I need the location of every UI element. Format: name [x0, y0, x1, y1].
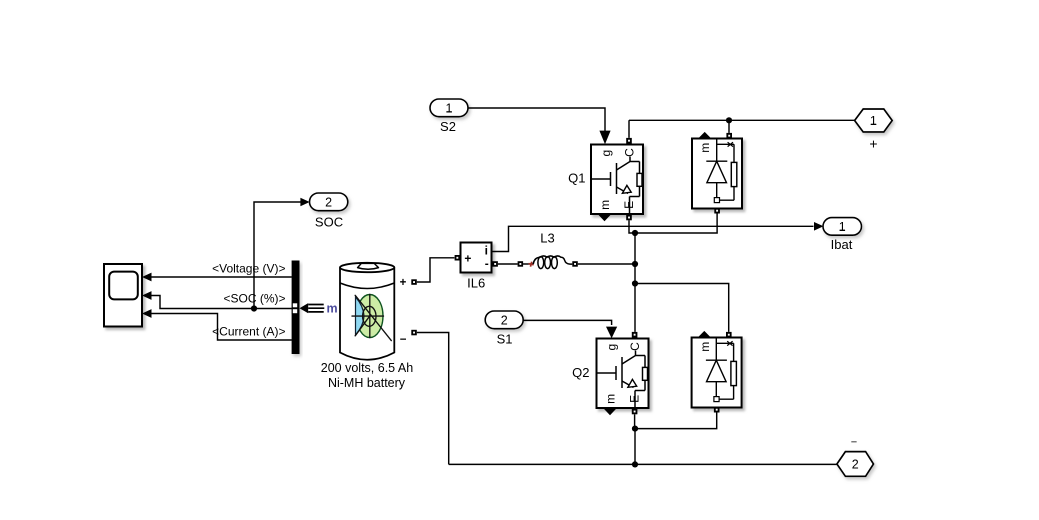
scope input arrow 1 — [142, 273, 152, 282]
svg-text:+: + — [400, 277, 407, 289]
Q2 m port triangle — [604, 408, 617, 415]
wire S1 to Q2 gate — [523, 320, 611, 325]
svg-text:2: 2 — [852, 457, 859, 471]
wire current to scope — [151, 314, 293, 341]
svg-text:-: - — [485, 257, 489, 271]
diode D2 — [692, 338, 742, 408]
svg-text:m: m — [598, 200, 612, 210]
D1 bottom port — [714, 208, 720, 214]
Q1 gate arrow — [599, 131, 610, 145]
svg-text:Q1: Q1 — [568, 171, 585, 186]
Q1 C port — [626, 138, 632, 144]
wire Q1 E down — [629, 220, 635, 233]
wire Q1 C to top bus — [629, 120, 855, 138]
svg-text:1: 1 — [446, 101, 453, 115]
wire IL6 i to Ibat — [492, 226, 814, 251]
outport oval 1 Ibat — [814, 218, 862, 236]
svg-text:S2: S2 — [440, 119, 456, 134]
bus signal m arrow — [300, 303, 309, 313]
battery body — [340, 263, 394, 360]
wire battery minus to bottom bus — [417, 333, 449, 465]
junction dot SOC branch — [251, 305, 257, 311]
wire soc to scope — [151, 296, 293, 309]
D1 top port — [726, 133, 732, 139]
junction dot node mid1 — [632, 230, 638, 236]
outport oval 2 SOC — [300, 193, 347, 211]
battery plus port — [411, 279, 417, 285]
inport oval 2 S1 — [485, 311, 523, 329]
svg-text:C: C — [622, 148, 636, 157]
Q2 gate arrow — [606, 327, 617, 339]
svg-text:Ni-MH battery: Ni-MH battery — [328, 376, 406, 390]
junction dot bottom bus — [632, 461, 638, 467]
svg-text:2: 2 — [501, 313, 508, 327]
bottom bus wire — [449, 463, 837, 465]
outport hexagon 2 minus — [837, 452, 874, 477]
Q1 E port — [626, 215, 632, 221]
svg-text:+: + — [464, 251, 471, 265]
inport oval 1 S2 — [430, 99, 468, 117]
outport hexagon 1 plus — [855, 109, 893, 132]
svg-text:C: C — [628, 342, 642, 351]
junction dot top bus — [726, 117, 732, 123]
wire Q2 E down — [634, 414, 636, 428]
IGBT Q2 — [597, 339, 649, 409]
D2 m port triangle — [698, 331, 711, 337]
junction dot node L — [632, 261, 638, 267]
svg-text:2: 2 — [325, 196, 332, 210]
svg-text:S1: S1 — [497, 332, 513, 347]
diode D1 — [692, 139, 742, 209]
wire SOC branch — [254, 202, 301, 309]
wire battery plus to IL6 — [417, 258, 455, 282]
svg-text:g: g — [599, 150, 613, 157]
IGBT Q1 — [591, 145, 643, 215]
svg-text:L3: L3 — [540, 230, 554, 245]
wire IL6 minus to inductor — [498, 263, 518, 265]
svg-text:+: + — [869, 136, 877, 152]
wire node E2 to bottom bus — [634, 429, 636, 465]
wire D2 bottom down — [635, 413, 717, 429]
D2 bottom port — [714, 407, 720, 413]
svg-text:E: E — [627, 395, 641, 403]
svg-text:1: 1 — [870, 114, 877, 128]
svg-text:<Current (A)>: <Current (A)> — [212, 324, 285, 338]
scope input arrow 3 — [142, 309, 152, 318]
svg-text:Q2: Q2 — [572, 365, 589, 380]
current measurement IL6 — [455, 243, 498, 273]
svg-text:m: m — [604, 394, 618, 404]
svg-text:m: m — [698, 342, 712, 352]
wire inductor to node — [578, 263, 635, 265]
svg-text:200 volts, 6.5 Ah: 200 volts, 6.5 Ah — [321, 361, 413, 375]
battery minus port — [411, 330, 417, 336]
junction dot node mid2 — [632, 280, 638, 286]
svg-text:E: E — [622, 201, 636, 209]
svg-text:SOC: SOC — [315, 215, 343, 230]
Q2 E port — [632, 409, 638, 415]
svg-text:−: − — [851, 436, 857, 448]
svg-text:g: g — [605, 344, 619, 351]
svg-text:IL6: IL6 — [467, 276, 485, 291]
port center notches — [413, 135, 730, 413]
wire mid vertical — [634, 233, 636, 332]
battery logo — [352, 294, 391, 340]
D2 top port — [726, 332, 732, 338]
svg-text:m: m — [327, 302, 338, 316]
Q1 m port triangle — [598, 214, 611, 221]
junction dot node E2 — [632, 426, 638, 432]
wire S2 to Q1 gate — [468, 108, 605, 131]
scope input arrow 2 — [142, 291, 152, 300]
svg-text:1: 1 — [839, 220, 846, 234]
bus selector — [292, 261, 300, 355]
D1 m port triangle — [698, 132, 711, 138]
inductor L3 — [518, 256, 578, 269]
wire dot to diode D1 — [728, 120, 730, 133]
svg-text:m: m — [698, 143, 712, 153]
svg-text:−: − — [400, 334, 407, 346]
wire node to D2 — [635, 284, 729, 332]
svg-text:i: i — [485, 243, 488, 257]
svg-text:<Voltage (V)>: <Voltage (V)> — [212, 261, 285, 275]
Q2 C port — [632, 332, 638, 338]
bus signal triple line — [308, 305, 324, 312]
wire voltage to scope — [151, 276, 293, 278]
scope block — [104, 264, 142, 327]
svg-text:Ibat: Ibat — [831, 237, 853, 252]
wire D1 bottom down — [635, 214, 717, 234]
